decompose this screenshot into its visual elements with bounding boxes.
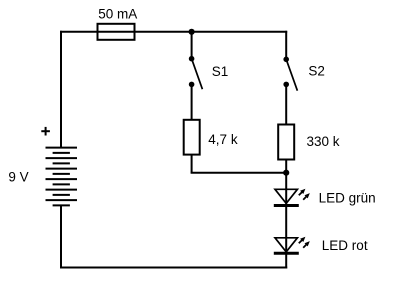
wire battery minus lead xyxy=(60,205,62,268)
switch S1 xyxy=(189,56,203,89)
label 9 V xyxy=(8,170,28,185)
node junction dot R1/R2 join xyxy=(283,170,289,176)
fuse F1 50 mA xyxy=(98,24,135,40)
wire R1 bottom lead xyxy=(191,155,193,173)
resistor R1 4,7 k xyxy=(184,120,200,155)
wire S1 upper lead xyxy=(191,32,193,57)
svg-text:50 mA: 50 mA xyxy=(98,6,137,21)
label LED rot xyxy=(322,238,368,253)
wire bottom horizontal xyxy=(60,267,287,269)
wire LED1 to LED2 xyxy=(285,206,287,254)
wire top horizontal xyxy=(60,31,287,33)
svg-text:4,7 k: 4,7 k xyxy=(208,132,238,147)
label LED gruen xyxy=(319,190,376,205)
label S2 xyxy=(308,64,325,79)
svg-text:LED grün: LED grün xyxy=(319,190,376,205)
LED D2 red xyxy=(274,237,310,254)
battery plus sign xyxy=(41,127,50,136)
label 50 mA xyxy=(98,6,137,21)
svg-text:9 V: 9 V xyxy=(8,170,28,185)
wire S1 to R1 xyxy=(191,84,193,120)
label S1 xyxy=(212,64,229,79)
wire LED2 to bottom corner xyxy=(285,253,287,268)
svg-text:S2: S2 xyxy=(308,64,325,79)
wire S2 to R2 xyxy=(285,84,287,124)
label 4,7 k xyxy=(208,132,238,147)
label 330 k xyxy=(307,134,340,149)
wire R2 bottom lead to LED1 xyxy=(285,160,287,206)
wire left vertical (battery plus lead) xyxy=(60,31,62,148)
wire bottom connector horizontal R1 to LED branch xyxy=(191,172,287,174)
node junction dot top (S1 branch tap) xyxy=(189,29,195,35)
LED D1 green xyxy=(274,189,310,206)
svg-text:330 k: 330 k xyxy=(307,134,340,149)
switch S2 xyxy=(283,57,297,91)
battery B1 9V xyxy=(46,148,78,206)
resistor R2 330 k xyxy=(278,125,294,160)
svg-text:S1: S1 xyxy=(212,64,229,79)
wire right vertical (top corner to S2) xyxy=(285,31,287,58)
svg-text:LED rot: LED rot xyxy=(322,238,368,253)
